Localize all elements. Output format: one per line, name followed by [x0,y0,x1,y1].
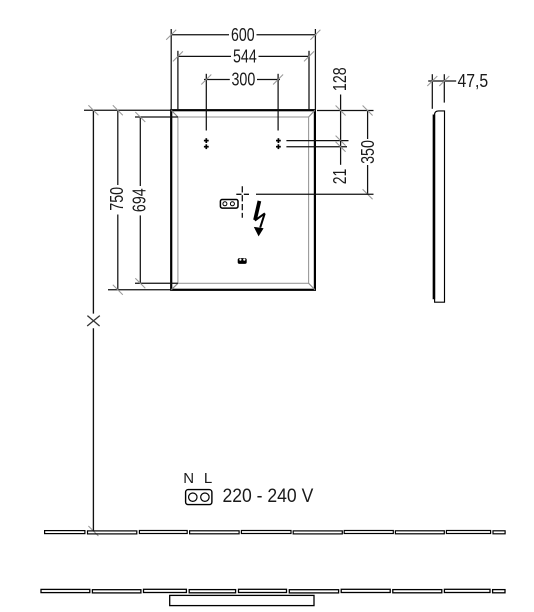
svg-text:47,5: 47,5 [458,71,489,91]
bevel miter diagonal bottom-right [309,283,315,290]
wall height reference line [92,110,94,530]
sensor switch dot on mirror [238,258,247,264]
tick 350 bottom [363,189,373,199]
tick wall line bottom [88,526,98,536]
dimension 128 line [340,95,342,141]
tick 47,5 right [439,76,449,86]
tick 47,5 left [427,76,437,86]
svg-text:694: 694 [130,188,150,212]
dimension 544 extension lines [177,51,179,110]
side view mirror glass thick edge [433,115,436,300]
svg-text:350: 350 [358,140,378,164]
tick 350 top [363,106,373,116]
svg-text:L: L [204,470,212,487]
dimension 750 line [117,110,119,290]
side view profile outline [435,111,445,302]
connection point dashed crosshair vertical [241,186,243,218]
tick 694 top [135,112,145,122]
connection point extension line to right [256,193,374,195]
tick 600 left [166,30,176,40]
left extension line top (750 ref) [84,109,171,111]
floor line upper row of plank segments [45,531,506,534]
junction box symbol on mirror [220,200,238,209]
dimension 300 line [204,74,280,131]
tick 750 bottom [113,285,123,295]
connection point dashed crosshair horizontal [236,193,250,195]
mains junction box symbol [186,490,212,505]
tick 21 bottom [336,142,346,152]
svg-text:220 - 240 V: 220 - 240 V [223,485,314,507]
dimension 600 extension lines [170,29,172,110]
svg-text:300: 300 [232,70,256,90]
left extension line bottom (750 ref) [108,289,171,291]
tick 544 left [173,51,183,61]
base plinth rectangle [170,595,314,605]
tick wall line top [88,105,98,115]
left extension line bottom (694 ref) [135,282,178,284]
floor line lower row of plank segments [41,589,505,593]
svg-text:544: 544 [233,47,257,67]
dimension 300 extension lines [205,74,207,131]
bevel miter diagonal top-right [309,110,315,117]
bevel miter diagonal bottom-left [171,283,178,290]
svg-text:128: 128 [330,67,350,91]
svg-text:N: N [183,470,194,487]
tick 300 right [273,75,283,85]
mirror front view outer outline [171,110,315,290]
tick 600 right [310,30,320,40]
dimension 544 line [177,51,310,110]
tick 544 right [304,51,314,61]
top-right extension line (mirror top edge ref) [317,110,374,112]
mounting hole marks left pair [204,138,209,149]
left extension line top (694 ref) [135,116,178,118]
side view dimension 47,5 extension lines [428,74,456,109]
mounting hole marks right pair [276,138,281,149]
svg-text:750: 750 [107,187,127,211]
variable height cross mark [87,316,100,326]
hole reference lines to right [286,141,348,147]
side view dimension 47,5 line [428,80,456,82]
dimension 21 line [340,141,342,165]
dimension 694 line [139,117,141,283]
svg-text:21: 21 [330,169,350,185]
mirror front view inner bevel rectangle [178,117,309,283]
dimension 600 line [171,29,317,110]
electrical flash arrow symbol [254,201,265,237]
tick 694 bottom [135,278,145,288]
tick 128 top [336,106,346,116]
tick 128 bottom [336,136,346,146]
bevel miter diagonal top-left [171,110,178,117]
tick 750 top [113,105,123,115]
tick 300 left [201,75,211,85]
svg-text:600: 600 [231,25,255,45]
dimension 350 line [367,111,369,195]
